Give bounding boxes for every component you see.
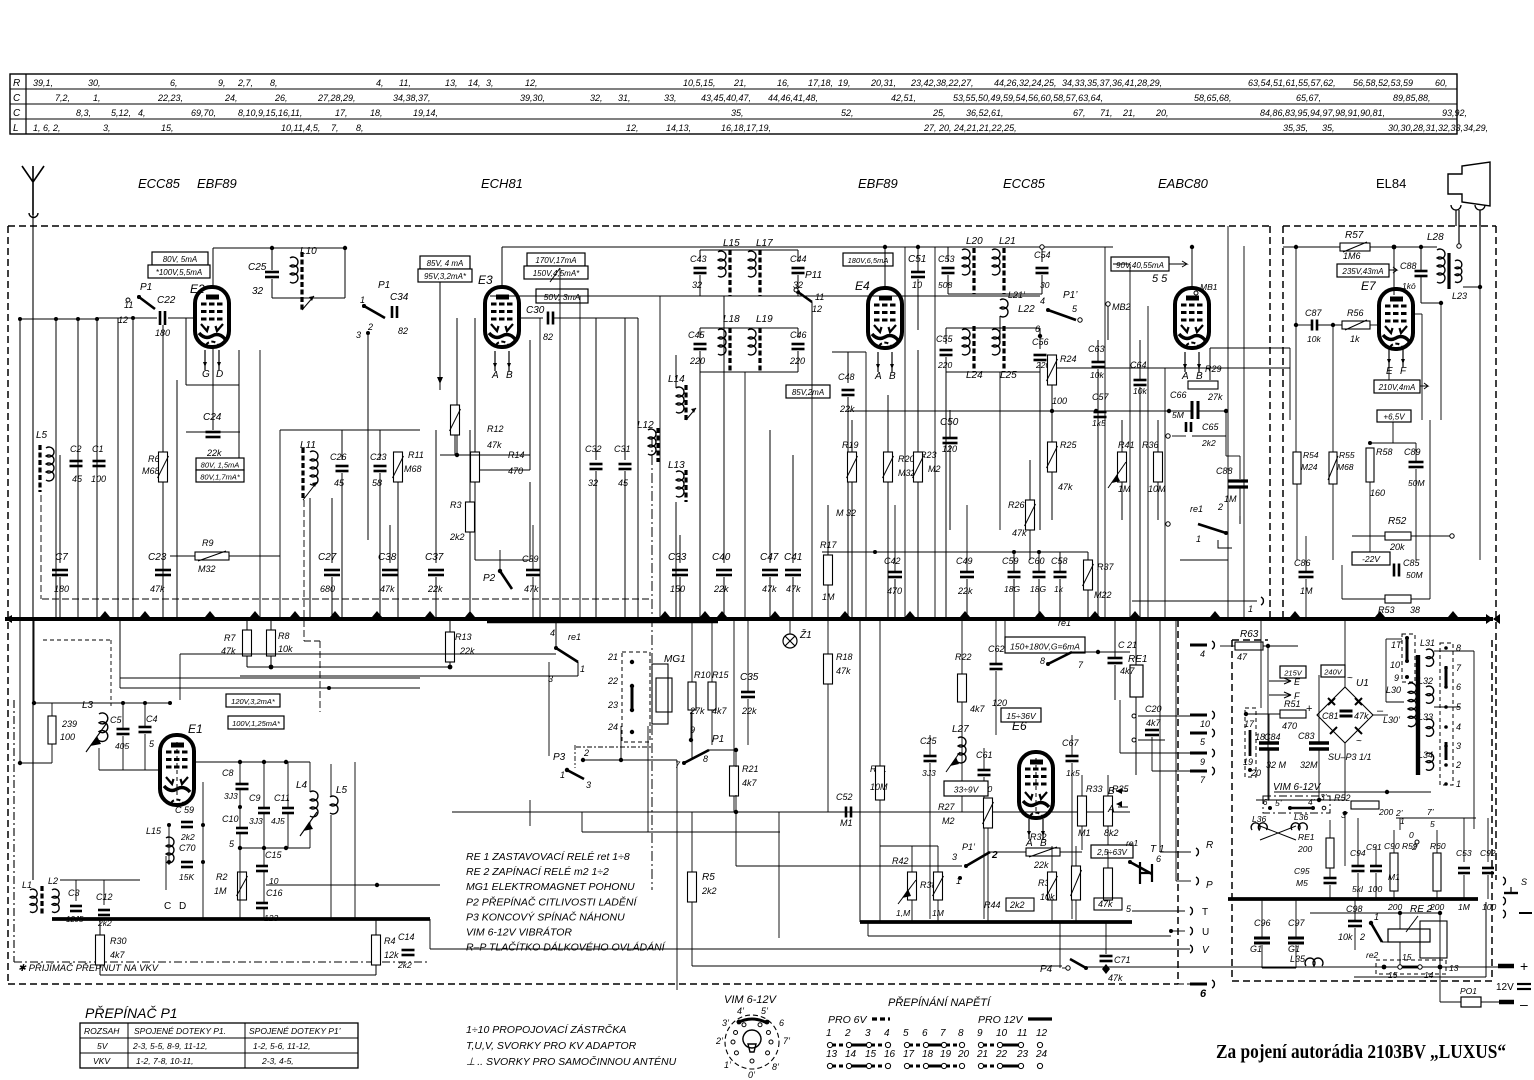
svg-text:L32: L32	[1418, 676, 1433, 686]
svg-text:22k: 22k	[713, 584, 729, 594]
svg-text:L21: L21	[999, 236, 1016, 247]
svg-text:14: 14	[1424, 970, 1434, 980]
svg-text:5: 5	[903, 1028, 909, 1039]
svg-text:27,28,29,: 27,28,29,	[317, 93, 356, 103]
svg-text:C24: C24	[203, 412, 222, 423]
svg-text:5V: 5V	[97, 1041, 109, 1051]
svg-text:30,: 30,	[88, 78, 101, 88]
svg-text:ECC85: ECC85	[1003, 176, 1046, 191]
svg-text:8,10,9,15,16,11,: 8,10,9,15,16,11,	[238, 108, 302, 118]
svg-text:27k: 27k	[1207, 392, 1223, 402]
svg-text:12J5: 12J5	[66, 915, 84, 924]
svg-text:20,: 20,	[1155, 108, 1169, 118]
svg-text:C70: C70	[179, 843, 196, 853]
svg-text:39,30,: 39,30,	[520, 93, 545, 103]
svg-text:47k: 47k	[487, 440, 502, 450]
svg-text:R52: R52	[1388, 516, 1407, 527]
svg-text:15K: 15K	[179, 872, 194, 882]
svg-text:1, 6, 2,: 1, 6, 2,	[33, 123, 61, 133]
svg-text:+: +	[1306, 703, 1312, 715]
svg-text:L30’: L30’	[1383, 715, 1401, 725]
svg-text:U: U	[1202, 927, 1209, 938]
svg-text:85V,2mA: 85V,2mA	[792, 388, 824, 397]
svg-text:EBF89: EBF89	[858, 176, 898, 191]
svg-text:A: A	[1181, 371, 1189, 382]
svg-text:82: 82	[543, 332, 553, 342]
svg-text:R12: R12	[487, 424, 504, 434]
svg-text:C23: C23	[148, 552, 167, 563]
svg-text:89,85,88,: 89,85,88,	[1393, 93, 1431, 103]
svg-text:47k: 47k	[786, 584, 801, 594]
svg-text:C91: C91	[1366, 842, 1382, 852]
svg-text:C1: C1	[92, 444, 104, 454]
svg-text:508: 508	[938, 280, 952, 290]
svg-text:32M: 32M	[1300, 760, 1318, 770]
svg-text:RE1: RE1	[1298, 832, 1315, 842]
svg-text:10k: 10k	[278, 644, 293, 654]
svg-text:MB1: MB1	[1200, 282, 1218, 292]
svg-text:15: 15	[865, 1049, 877, 1060]
svg-text:C16: C16	[266, 888, 283, 898]
svg-text:19,14,: 19,14,	[413, 108, 438, 118]
svg-text:47k: 47k	[1098, 899, 1113, 909]
svg-text:10k: 10k	[1090, 370, 1104, 380]
svg-text:8’: 8’	[772, 1062, 780, 1072]
svg-text:R21: R21	[742, 764, 759, 774]
svg-text:RE 1 ZASTAVOVACÍ RELÉ ret 1÷8: RE 1 ZASTAVOVACÍ RELÉ ret 1÷8	[466, 850, 630, 863]
svg-text:C4: C4	[146, 714, 158, 724]
svg-text:90V,40,55mA: 90V,40,55mA	[1116, 261, 1164, 270]
svg-text:2k2: 2k2	[1009, 900, 1025, 910]
svg-text:13: 13	[826, 1049, 838, 1060]
svg-text:*100V,5,5mA: *100V,5,5mA	[156, 268, 203, 277]
svg-text:23: 23	[607, 700, 618, 710]
svg-text:R57: R57	[1345, 230, 1364, 241]
svg-text:R8: R8	[278, 631, 290, 641]
svg-text:C86: C86	[1294, 558, 1311, 568]
svg-text:53,55,50,49,59,54,56,60,58,57,: 53,55,50,49,59,54,56,60,58,57,63,64,	[953, 93, 1103, 103]
svg-text:4,: 4,	[138, 108, 146, 118]
svg-text:9: 9	[977, 1028, 983, 1039]
svg-text:C10: C10	[222, 814, 239, 824]
svg-text:C39: C39	[522, 554, 539, 564]
svg-text:8: 8	[1456, 643, 1461, 653]
svg-text:11: 11	[815, 292, 824, 302]
svg-text:67,: 67,	[1073, 108, 1086, 118]
svg-text:E4: E4	[855, 279, 870, 293]
svg-text:2: 2	[367, 322, 373, 332]
svg-text:100: 100	[1052, 396, 1067, 406]
svg-text:L23: L23	[1452, 291, 1467, 301]
svg-text:R10: R10	[694, 670, 711, 680]
svg-text:47k: 47k	[221, 646, 236, 656]
svg-text:M68: M68	[1337, 462, 1354, 472]
svg-text:10: 10	[1390, 660, 1400, 670]
svg-text:22k: 22k	[741, 706, 757, 716]
svg-text:M1: M1	[1078, 828, 1091, 838]
svg-text:R4: R4	[384, 936, 396, 946]
svg-text:1: 1	[560, 770, 565, 780]
svg-text:10: 10	[912, 280, 922, 290]
svg-text:C42: C42	[884, 556, 901, 566]
svg-text:R5: R5	[702, 872, 715, 883]
svg-text:120V,3,2mA*: 120V,3,2mA*	[231, 697, 276, 706]
svg-text:0: 0	[1409, 830, 1414, 840]
svg-text:PRO 6V: PRO 6V	[828, 1014, 868, 1026]
svg-text:18G: 18G	[1030, 584, 1046, 594]
svg-text:T 1: T 1	[1150, 844, 1164, 855]
svg-text:R13: R13	[455, 632, 472, 642]
svg-text:160: 160	[1370, 488, 1385, 498]
svg-text:C84: C84	[1264, 732, 1281, 742]
svg-text:2: 2	[583, 748, 589, 758]
svg-text:4: 4	[550, 628, 555, 638]
svg-text:13: 13	[1449, 963, 1459, 973]
svg-text:P3 KONCOVÝ SPÍNAČ NÁHONU: P3 KONCOVÝ SPÍNAČ NÁHONU	[466, 910, 625, 923]
svg-text:L2: L2	[48, 876, 58, 886]
svg-text:R32: R32	[1030, 832, 1047, 842]
svg-text:R11: R11	[408, 450, 424, 460]
svg-text:69,70,: 69,70,	[191, 108, 216, 118]
svg-text:50V, 3mA: 50V, 3mA	[544, 292, 581, 302]
svg-text:re1: re1	[1126, 838, 1139, 848]
svg-text:✱ PŘIJÍMAČ PŘEPNUT NA VKV: ✱ PŘIJÍMAČ PŘEPNUT NA VKV	[18, 963, 160, 974]
svg-text:80V, 1,5mA: 80V, 1,5mA	[201, 460, 240, 469]
svg-text:85V, 4 mA: 85V, 4 mA	[427, 259, 464, 268]
svg-text:22k: 22k	[459, 646, 475, 656]
svg-text:ECH81: ECH81	[481, 176, 523, 191]
svg-text:10k: 10k	[1338, 932, 1353, 942]
svg-text:19: 19	[1243, 757, 1253, 767]
svg-text:Ž1: Ž1	[799, 628, 812, 641]
svg-text:56,58,52,53,59: 56,58,52,53,59	[1353, 78, 1413, 88]
svg-text:180: 180	[54, 584, 69, 594]
svg-text:R15: R15	[712, 670, 730, 680]
svg-text:C 59: C 59	[175, 805, 194, 815]
svg-text:18: 18	[922, 1049, 934, 1060]
svg-text:L5: L5	[336, 785, 348, 796]
svg-text:1: 1	[580, 664, 585, 674]
svg-text:200: 200	[1297, 844, 1312, 854]
svg-text:4J5: 4J5	[271, 816, 285, 826]
svg-text:RE1: RE1	[1128, 654, 1147, 665]
svg-text:16: 16	[884, 1049, 896, 1060]
svg-text:P1’: P1’	[1063, 290, 1078, 301]
svg-text:10,11,4,5,: 10,11,4,5,	[281, 123, 320, 133]
svg-text:25,: 25,	[932, 108, 946, 118]
svg-text:A: A	[1107, 804, 1115, 815]
svg-text:80V,1,7mA*: 80V,1,7mA*	[200, 472, 241, 481]
svg-text:9,: 9,	[218, 78, 226, 88]
svg-text:47: 47	[1237, 652, 1248, 662]
svg-text:1M: 1M	[214, 886, 227, 896]
svg-text:1: 1	[1374, 912, 1379, 922]
svg-text:P1: P1	[712, 734, 724, 745]
svg-text:M22: M22	[1094, 590, 1112, 600]
svg-text:M1: M1	[1388, 872, 1400, 882]
svg-text:C53: C53	[938, 254, 955, 264]
svg-text:35,35,: 35,35,	[1283, 123, 1308, 133]
svg-text:R36: R36	[1142, 440, 1159, 450]
svg-text:93,92,: 93,92,	[1442, 108, 1467, 118]
svg-text:63,54,51,61,55,57,62,: 63,54,51,61,55,57,62,	[1248, 78, 1336, 88]
svg-text:2: 2	[1359, 932, 1365, 942]
svg-text:22k: 22k	[839, 404, 855, 414]
svg-text:C85: C85	[1403, 558, 1421, 568]
svg-text:6: 6	[922, 1028, 928, 1039]
svg-text:~: ~	[1347, 673, 1353, 684]
svg-text:22k: 22k	[1033, 860, 1049, 870]
svg-text:47k: 47k	[1058, 482, 1073, 492]
svg-text:2: 2	[844, 1028, 851, 1039]
svg-text:150+180V,G=6mA: 150+180V,G=6mA	[1010, 641, 1080, 651]
svg-text:470: 470	[1282, 721, 1297, 731]
svg-text:82: 82	[398, 326, 408, 336]
svg-text:B: B	[506, 370, 513, 381]
svg-text:14: 14	[845, 1049, 857, 1060]
svg-text:C67: C67	[1062, 738, 1080, 748]
svg-text:200: 200	[1387, 902, 1402, 912]
svg-text:12,: 12,	[525, 78, 538, 88]
svg-text:L20: L20	[966, 236, 983, 247]
svg-text:23: 23	[1016, 1049, 1029, 1060]
svg-text:1M: 1M	[1300, 586, 1313, 596]
svg-text:C8: C8	[222, 768, 234, 778]
svg-text:M5: M5	[1296, 878, 1308, 888]
svg-text:PŘEPÍNAČ P1: PŘEPÍNAČ P1	[85, 1005, 178, 1021]
svg-text:220: 220	[937, 360, 952, 370]
svg-text:R20: R20	[898, 454, 915, 464]
svg-text:C20: C20	[1145, 704, 1162, 714]
svg-text:R18: R18	[836, 652, 853, 662]
svg-text:4k7: 4k7	[742, 778, 758, 788]
svg-text:3: 3	[586, 780, 591, 790]
svg-text:12: 12	[1036, 1028, 1048, 1039]
svg-text:16,: 16,	[777, 78, 790, 88]
svg-text:20,31,: 20,31,	[870, 78, 896, 88]
svg-text:58: 58	[372, 478, 382, 488]
svg-text:C47: C47	[760, 552, 779, 563]
svg-text:3’: 3’	[1320, 792, 1327, 802]
svg-text:239: 239	[61, 719, 77, 729]
svg-text:Za pojení autorádia 2103BV „LU: Za pojení autorádia 2103BV „LUXUS“	[1216, 1041, 1506, 1063]
svg-text:P1: P1	[378, 280, 390, 291]
svg-text:L15: L15	[723, 238, 740, 249]
svg-text:L34: L34	[1418, 750, 1433, 760]
svg-text:10: 10	[996, 1028, 1008, 1039]
svg-text:11,: 11,	[399, 78, 411, 88]
svg-text:4: 4	[1200, 649, 1205, 659]
svg-text:6: 6	[779, 1018, 784, 1028]
svg-text:1k: 1k	[1054, 584, 1064, 594]
svg-text:8: 8	[703, 754, 708, 764]
svg-text:17: 17	[1244, 719, 1255, 729]
svg-text:ECC85: ECC85	[138, 176, 181, 191]
svg-text:M68: M68	[142, 466, 160, 476]
svg-text:10: 10	[269, 876, 279, 886]
svg-text:C31: C31	[614, 444, 631, 454]
svg-text:4: 4	[884, 1028, 890, 1039]
svg-text:D: D	[216, 369, 223, 380]
svg-text:6’: 6’	[1263, 798, 1269, 807]
svg-text:34,38,37,: 34,38,37,	[393, 93, 431, 103]
svg-text:C25: C25	[248, 262, 267, 273]
svg-text:–: –	[1520, 996, 1528, 1012]
svg-text:180V,6,5mA: 180V,6,5mA	[848, 256, 889, 265]
svg-text:C: C	[164, 901, 171, 912]
svg-text:17,18,: 17,18,	[808, 78, 833, 88]
svg-text:C37: C37	[425, 552, 444, 563]
svg-text:R2: R2	[216, 872, 228, 882]
svg-text:R: R	[13, 78, 20, 89]
svg-text:1M: 1M	[1458, 902, 1471, 912]
svg-text:C88: C88	[1216, 466, 1233, 476]
svg-text:100: 100	[60, 732, 75, 742]
svg-text:22: 22	[995, 1049, 1008, 1060]
svg-text:22k: 22k	[957, 586, 973, 596]
svg-text:120: 120	[992, 698, 1007, 708]
svg-text:10M: 10M	[870, 782, 888, 792]
svg-text:42,51,: 42,51,	[891, 93, 916, 103]
svg-text:6: 6	[1035, 324, 1040, 334]
svg-text:7: 7	[940, 1028, 946, 1039]
svg-text:C64: C64	[1130, 360, 1147, 370]
svg-text:1-2, 5-6, 11-12,: 1-2, 5-6, 11-12,	[253, 1041, 311, 1051]
svg-text:PRO 12V: PRO 12V	[978, 1014, 1023, 1026]
svg-text:32: 32	[588, 478, 598, 488]
svg-text:50M: 50M	[1408, 478, 1425, 488]
svg-text:2: 2	[1217, 502, 1223, 512]
svg-text:2k2: 2k2	[97, 918, 112, 928]
svg-text:1,M: 1,M	[896, 908, 911, 918]
svg-text:170V,17mA: 170V,17mA	[535, 256, 576, 265]
svg-text:E2: E2	[190, 282, 205, 296]
svg-text:C95: C95	[1294, 866, 1310, 876]
svg-text:1kō: 1kō	[1402, 281, 1416, 291]
svg-text:45: 45	[618, 478, 629, 488]
svg-text:R41: R41	[1118, 440, 1135, 450]
svg-text:C3: C3	[68, 888, 80, 898]
svg-text:4’: 4’	[737, 1006, 745, 1016]
svg-text:A: A	[874, 371, 882, 382]
svg-text:47k: 47k	[836, 666, 851, 676]
svg-text:8: 8	[1040, 656, 1045, 666]
svg-text:44,46,41,48,: 44,46,41,48,	[768, 93, 818, 103]
svg-text:L5: L5	[36, 430, 48, 441]
svg-text:24: 24	[607, 722, 618, 732]
svg-text:R3: R3	[450, 500, 462, 510]
svg-text:C97: C97	[1288, 918, 1306, 928]
svg-text:C35: C35	[740, 672, 759, 683]
svg-text:⊥ .. SVORKY PRO SAMOČINNOU A: ⊥ .. SVORKY PRO SAMOČINNOU ANTÉNU	[466, 1055, 677, 1068]
svg-text:R24: R24	[1060, 354, 1077, 364]
svg-text:15,: 15,	[161, 123, 174, 133]
svg-text:L15: L15	[146, 826, 162, 836]
svg-text:C52: C52	[836, 792, 853, 802]
svg-text:-22V: -22V	[1362, 554, 1381, 564]
svg-text:L28: L28	[1427, 232, 1444, 243]
svg-text:C98: C98	[1346, 904, 1363, 914]
svg-text:4’: 4’	[1308, 797, 1315, 807]
svg-text:L19: L19	[756, 314, 773, 325]
svg-text:60,: 60,	[1435, 78, 1448, 88]
svg-text:VIM 6-12V: VIM 6-12V	[1273, 782, 1322, 793]
svg-text:3,: 3,	[486, 78, 494, 88]
svg-text:C5: C5	[110, 715, 122, 725]
svg-text:7’: 7’	[783, 1036, 791, 1046]
svg-text:C45: C45	[688, 330, 706, 340]
svg-text:C87: C87	[1305, 308, 1323, 318]
svg-text:3J3: 3J3	[249, 816, 263, 826]
svg-text:C71: C71	[1114, 955, 1131, 965]
svg-text:71,: 71,	[1100, 108, 1113, 118]
svg-text:R56: R56	[1347, 308, 1364, 318]
svg-text:R37: R37	[1097, 562, 1115, 572]
svg-text:9: 9	[1394, 673, 1399, 683]
svg-text:L35: L35	[1290, 954, 1306, 964]
svg-text:8,: 8,	[356, 123, 364, 133]
svg-text:R26: R26	[1008, 500, 1025, 510]
svg-text:2k2: 2k2	[397, 960, 412, 970]
svg-text:B: B	[1108, 786, 1115, 797]
svg-text:210V,4mA: 210V,4mA	[1378, 383, 1416, 392]
svg-text:470: 470	[508, 466, 523, 476]
svg-text:2,5÷63V: 2,5÷63V	[1096, 848, 1127, 857]
svg-text:220: 220	[689, 356, 705, 366]
svg-text:R58: R58	[1376, 447, 1393, 457]
svg-text:C59: C59	[1002, 556, 1019, 566]
svg-text:VKV: VKV	[93, 1056, 111, 1066]
svg-text:38: 38	[1410, 605, 1420, 615]
svg-text:R: R	[1206, 840, 1213, 851]
svg-text:1-2, 7-8, 10-11,: 1-2, 7-8, 10-11,	[136, 1056, 194, 1066]
svg-text:1: 1	[826, 1028, 832, 1039]
svg-text:20: 20	[957, 1049, 970, 1060]
svg-text:R17: R17	[820, 540, 838, 550]
svg-text:15÷36V: 15÷36V	[1006, 711, 1037, 721]
svg-text:SPOJENÉ DOTEKY P1’: SPOJENÉ DOTEKY P1’	[249, 1026, 341, 1036]
svg-text:R9: R9	[202, 538, 214, 548]
svg-text:P1’: P1’	[962, 842, 976, 852]
svg-text:C81: C81	[1322, 711, 1339, 721]
svg-text:24,: 24,	[224, 93, 238, 103]
svg-text:L33: L33	[1418, 712, 1433, 722]
svg-text:45: 45	[72, 474, 83, 484]
svg-text:5,12,: 5,12,	[111, 108, 131, 118]
svg-text:1: 1	[1456, 779, 1461, 789]
svg-text:2k2: 2k2	[701, 886, 717, 896]
svg-text:5’: 5’	[1275, 798, 1282, 808]
svg-text:R42: R42	[892, 856, 909, 866]
svg-text:8,3,: 8,3,	[76, 108, 91, 118]
svg-text:G: G	[202, 369, 210, 380]
svg-text:P: P	[1206, 880, 1213, 891]
svg-text:U1: U1	[1356, 678, 1369, 689]
svg-text:6: 6	[1156, 854, 1161, 864]
svg-text:E1: E1	[188, 722, 203, 736]
svg-text:17,: 17,	[335, 108, 348, 118]
svg-text:1: 1	[1248, 604, 1253, 614]
svg-text:M2: M2	[928, 464, 941, 474]
svg-text:G1: G1	[1250, 944, 1262, 954]
svg-text:+6,5V: +6,5V	[1383, 412, 1405, 421]
svg-text:L27: L27	[952, 724, 969, 735]
svg-text:30,30,28,31,32,33,34,29,: 30,30,28,31,32,33,34,29,	[1388, 123, 1488, 133]
svg-text:9: 9	[1200, 757, 1205, 767]
svg-text:1,: 1,	[93, 93, 101, 103]
svg-text:T: T	[1202, 907, 1208, 918]
svg-text:L1: L1	[22, 880, 32, 890]
